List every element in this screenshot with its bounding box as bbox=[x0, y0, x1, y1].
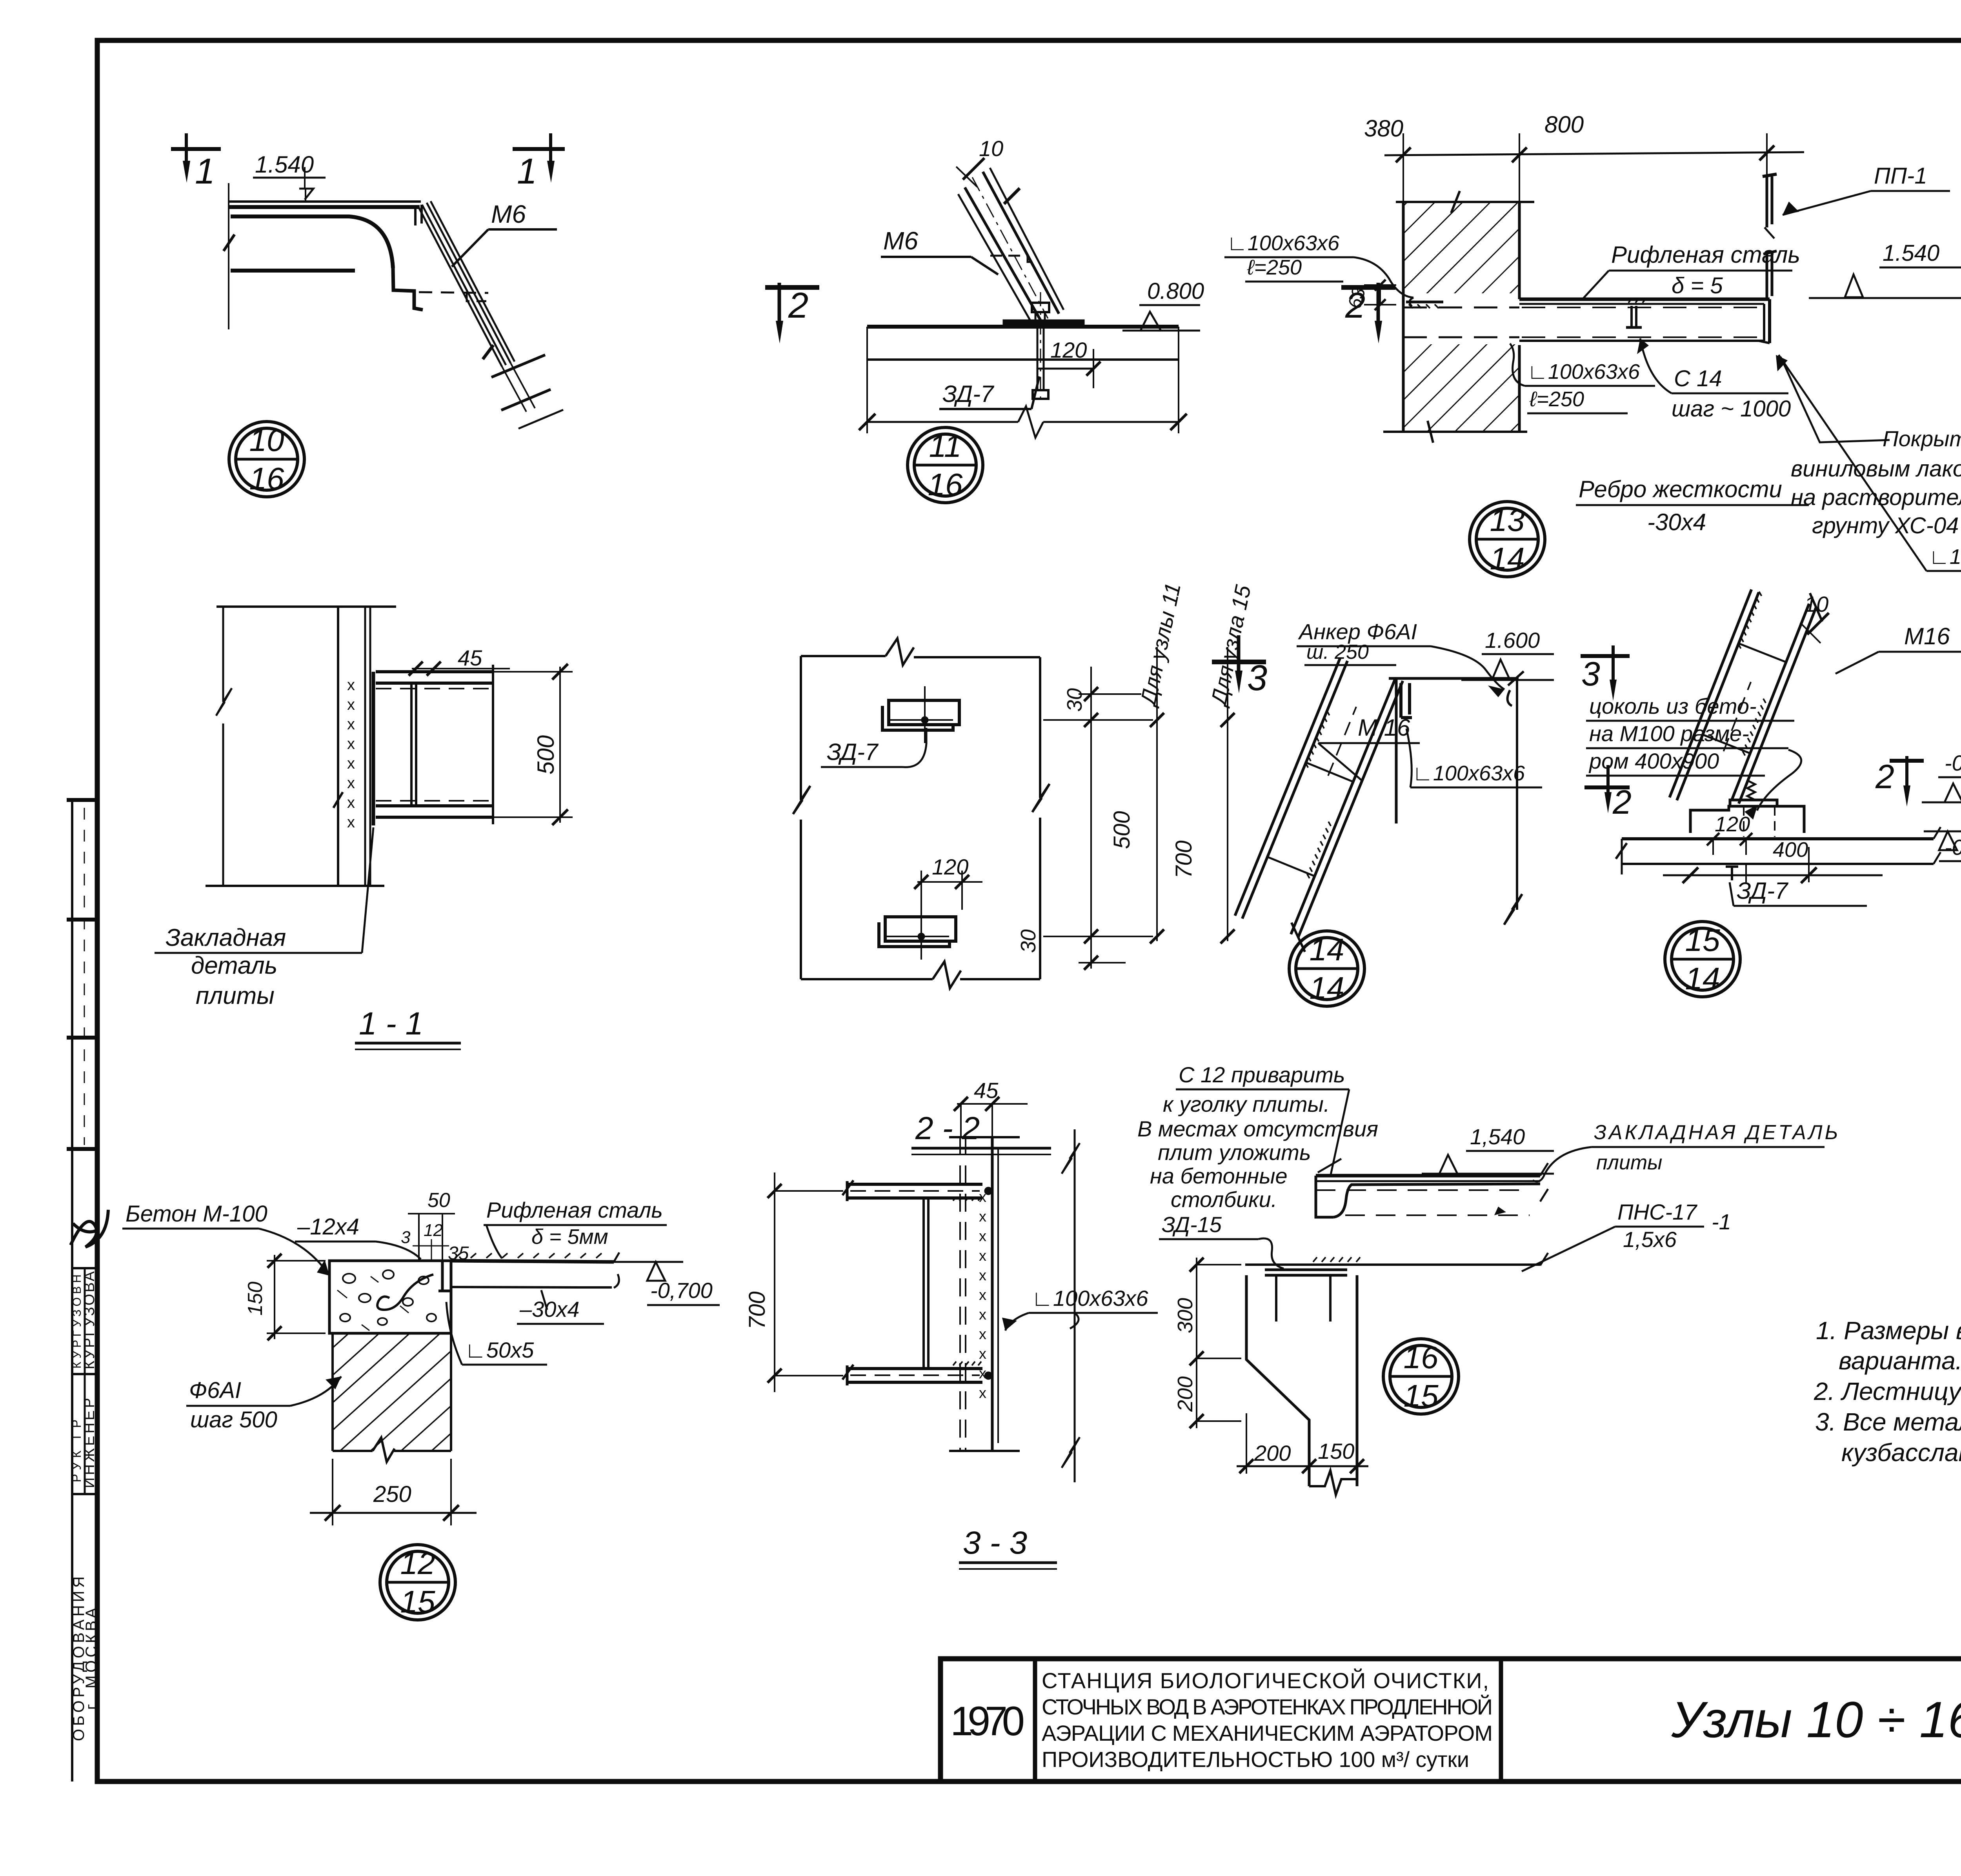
label L50x5 bbox=[446, 1302, 547, 1365]
svg-text:на М100 разме-: на М100 разме- bbox=[1589, 721, 1749, 746]
svg-text:3: 3 bbox=[1247, 658, 1267, 698]
svg-text:300: 300 bbox=[1173, 1298, 1197, 1333]
label -12x4 bbox=[295, 1214, 421, 1259]
svg-text:120: 120 bbox=[932, 854, 968, 879]
label ZD-15 bbox=[1159, 1212, 1284, 1269]
svg-text:Ребро жесткости: Ребро жесткости bbox=[1579, 476, 1782, 502]
dimension 500 (1-1) bbox=[493, 664, 573, 825]
wall verticals bbox=[333, 607, 370, 886]
svg-text:3: 3 bbox=[1581, 655, 1600, 693]
svg-text:–12х4: –12х4 bbox=[297, 1214, 359, 1240]
svg-text:δ = 5мм: δ = 5мм bbox=[531, 1225, 608, 1249]
svg-text:800: 800 bbox=[1544, 111, 1584, 138]
ladder M6 inclined bbox=[958, 168, 1064, 327]
section mark 3 (14/14) bbox=[1212, 635, 1267, 698]
upper support angle weld at wall face bbox=[1406, 302, 1443, 308]
left stamp cells bbox=[72, 1268, 97, 1494]
elevation 1.540 bbox=[1809, 240, 1961, 298]
svg-text:варианта.: варианта. bbox=[1839, 1347, 1961, 1375]
title block box bbox=[940, 1659, 1961, 1781]
section mark 2 below cokol text (15/14) bbox=[1584, 765, 1632, 821]
slab body outline bbox=[224, 216, 423, 310]
svg-text:x: x bbox=[347, 814, 355, 831]
svg-text:-0,700: -0,700 bbox=[1945, 835, 1961, 860]
label beton M-100 bbox=[122, 1201, 329, 1276]
label zakladnaya detal' plity (16/15) bbox=[1533, 1121, 1840, 1182]
svg-text:ПРОИЗВОДИТЕЛЬНОСТЬЮ 100 м³/ су: ПРОИЗВОДИТЕЛЬНОСТЬЮ 100 м³/ сутки bbox=[1042, 1747, 1469, 1772]
svg-text:50: 50 bbox=[427, 1189, 450, 1212]
svg-text:деталь: деталь bbox=[191, 952, 277, 979]
note text C12 privarit' bbox=[1137, 1062, 1378, 1212]
detail circle 12/15 bbox=[380, 1545, 455, 1620]
svg-text:150: 150 bbox=[1318, 1439, 1354, 1463]
foundation hatched block bbox=[333, 1333, 451, 1462]
elevation 1.600 bbox=[1461, 628, 1554, 680]
svg-text:30: 30 bbox=[1017, 929, 1040, 953]
label F6AI shag 500 bbox=[186, 1376, 341, 1432]
svg-text:2: 2 bbox=[788, 285, 808, 325]
dimension 120 (15/14) bbox=[1707, 813, 1752, 855]
svg-text:15: 15 bbox=[1685, 923, 1720, 958]
svg-text:плиты: плиты bbox=[196, 982, 275, 1009]
title block project name bbox=[1042, 1668, 1493, 1772]
bracket bottom beam bbox=[376, 801, 493, 817]
label M16 (14/14) bbox=[1318, 714, 1420, 780]
svg-text:x: x bbox=[979, 1385, 986, 1402]
svg-text:Рифленая сталь: Рифленая сталь bbox=[486, 1198, 663, 1222]
slab bottom line bbox=[867, 358, 1179, 361]
dimension 120 (2-2) bbox=[914, 854, 982, 910]
dimension 400 (15/14) bbox=[1746, 838, 1809, 882]
dimension 150 (12/15) bbox=[244, 1254, 326, 1340]
label M16 (15/14) bbox=[1835, 623, 1961, 674]
svg-text:-0,700: -0,700 bbox=[650, 1278, 713, 1303]
svg-text:700: 700 bbox=[1171, 840, 1197, 878]
svg-text:∟100х63х6: ∟100х63х6 bbox=[1412, 762, 1525, 785]
svg-text:М 16: М 16 bbox=[1358, 714, 1410, 741]
svg-text:шаг 500: шаг 500 bbox=[190, 1407, 277, 1432]
svg-text:ЗД-7: ЗД-7 bbox=[942, 381, 995, 407]
slab (15/14) bbox=[1616, 827, 1941, 874]
svg-text:16: 16 bbox=[1404, 1340, 1439, 1375]
dimension 10 (15/14) bbox=[1800, 592, 1829, 643]
svg-text:ЗД-15: ЗД-15 bbox=[1162, 1212, 1222, 1237]
svg-text:2 - 2: 2 - 2 bbox=[915, 1111, 980, 1146]
svg-text:∟100х63х6: ∟100х63х6 bbox=[1929, 545, 1961, 569]
dimension 10 at ladder top bbox=[956, 136, 1003, 187]
deck plate going right (12/15) bbox=[451, 1252, 619, 1288]
label C14 shag 1000 bbox=[1637, 338, 1791, 422]
svg-text:ИНЖЕНЕР: ИНЖЕНЕР bbox=[81, 1398, 98, 1488]
concrete plinth (15/14) bbox=[1690, 780, 1804, 837]
wall bottom cap line bbox=[206, 885, 384, 887]
left extension line with break bbox=[216, 607, 232, 886]
svg-text:виниловым лаком ХСЛ-4000: виниловым лаком ХСЛ-4000 bbox=[1791, 456, 1961, 482]
svg-text:12: 12 bbox=[400, 1546, 435, 1581]
svg-text:10: 10 bbox=[979, 136, 1003, 161]
svg-text:x: x bbox=[979, 1287, 986, 1303]
detail circle 15/14 bbox=[1665, 922, 1740, 997]
slab deck top lines bbox=[229, 202, 421, 207]
svg-text:КУРГУЗОВА: КУРГУЗОВА bbox=[81, 1271, 98, 1369]
svg-text:3 - 3: 3 - 3 bbox=[963, 1525, 1027, 1561]
svg-text:Закладная: Закладная bbox=[166, 924, 286, 951]
svg-text:СТАНЦИЯ БИОЛОГИЧЕСКОЙ ОЧИСТКИ,: СТАНЦИЯ БИОЛОГИЧЕСКОЙ ОЧИСТКИ, bbox=[1042, 1668, 1489, 1693]
dims 200/150 bottom (16/15) bbox=[1237, 1413, 1368, 1474]
svg-text:2. Лестницу МБ обрезать по мес: 2. Лестницу МБ обрезать по месту. bbox=[1814, 1377, 1961, 1405]
elevation -0,700 (12/15) bbox=[614, 1262, 720, 1305]
svg-text:120: 120 bbox=[1050, 338, 1087, 362]
svg-text:45: 45 bbox=[458, 645, 482, 670]
wall corner (14/14) bbox=[1389, 671, 1524, 925]
svg-text:–30х4: –30х4 bbox=[519, 1297, 580, 1322]
svg-text:x: x bbox=[979, 1267, 986, 1284]
svg-text:700: 700 bbox=[744, 1291, 770, 1329]
svg-text:1,540: 1,540 bbox=[1470, 1124, 1525, 1149]
dimension 380 / 800 bbox=[1364, 111, 1804, 202]
svg-text:200: 200 bbox=[1173, 1376, 1197, 1412]
dimension 63 left of wall bbox=[1344, 280, 1396, 311]
angle L50x5 at concrete corner bbox=[438, 1261, 451, 1291]
svg-text:15: 15 bbox=[1404, 1378, 1439, 1413]
svg-text:ℓ=250: ℓ=250 bbox=[1529, 387, 1584, 411]
svg-text:∟100х63х6: ∟100х63х6 bbox=[1031, 1286, 1149, 1311]
label zakladnaya detal' plity bbox=[155, 827, 373, 1009]
weld x marks (3-3) bbox=[979, 1189, 986, 1402]
svg-text:ПНС-17: ПНС-17 bbox=[1617, 1200, 1697, 1224]
label Rebro zhestkosti -30x4 bbox=[1576, 476, 1809, 535]
svg-text:∟100х63х6: ∟100х63х6 bbox=[1527, 360, 1640, 384]
svg-text:ЗД-7: ЗД-7 bbox=[827, 739, 879, 765]
label cokol iz betona bbox=[1586, 694, 1801, 820]
svg-text:столбики.: столбики. bbox=[1171, 1187, 1277, 1212]
svg-text:x: x bbox=[979, 1228, 986, 1245]
wall hatched bbox=[1383, 191, 1534, 443]
svg-text:δ = 5: δ = 5 bbox=[1672, 273, 1723, 298]
svg-text:к уголку плиты.: к уголку плиты. bbox=[1163, 1092, 1330, 1116]
svg-text:1970: 1970 bbox=[950, 1698, 1025, 1744]
svg-text:ш. 250: ш. 250 bbox=[1306, 641, 1369, 664]
note pokryt' perkhlorvinilovym bbox=[1776, 355, 1961, 538]
column (16/15) bbox=[1246, 1270, 1357, 1495]
svg-text:16: 16 bbox=[249, 461, 284, 496]
section mark 2 (15/14) bbox=[1875, 756, 1924, 807]
svg-text:14: 14 bbox=[1310, 971, 1344, 1005]
anchor bolt bbox=[1032, 292, 1049, 404]
svg-text:Анкер Ф6АI: Анкер Ф6АI bbox=[1298, 619, 1417, 644]
label L100x63x6 (3-3) bbox=[1002, 1286, 1158, 1331]
svg-text:кузбасслаком за 2раза кроме о: кузбасслаком за 2раза кроме оговоренных. bbox=[1841, 1438, 1961, 1467]
label M6 with leader bbox=[452, 200, 557, 267]
label L100x63x6 l=250 lower bbox=[1510, 344, 1655, 413]
dims 300/200 left (16/15) bbox=[1173, 1258, 1241, 1428]
svg-text:14: 14 bbox=[1310, 932, 1344, 967]
small dims 50 12 3 35 bbox=[401, 1189, 469, 1264]
label riflenaya stal' d=5mm (12/15) bbox=[484, 1198, 667, 1258]
channel plate ZD-7 upper bbox=[882, 686, 959, 743]
section mark 3 (15/14) bbox=[1581, 645, 1630, 701]
svg-text:45: 45 bbox=[974, 1078, 999, 1103]
svg-text:0.800: 0.800 bbox=[1147, 278, 1204, 304]
svg-text:x: x bbox=[979, 1209, 986, 1225]
left binding margin line bbox=[67, 800, 97, 1781]
svg-text:380: 380 bbox=[1364, 115, 1403, 142]
svg-text:М6: М6 bbox=[491, 200, 526, 228]
svg-text:на бетонные: на бетонные bbox=[1150, 1163, 1288, 1188]
svg-text:x: x bbox=[979, 1248, 986, 1264]
svg-text:∟50х5: ∟50х5 bbox=[465, 1338, 534, 1362]
svg-text:1. Размеры в круглых скобках д: 1. Размеры в круглых скобках даны для за… bbox=[1816, 1316, 1961, 1345]
railing post PP-1 bbox=[1763, 174, 1777, 299]
detail circle 11/16 bbox=[908, 427, 983, 503]
corner angle L100x63x6 (14/14) bbox=[1401, 683, 1512, 718]
svg-text:250: 250 bbox=[373, 1482, 411, 1507]
detail circle 16/15 bbox=[1383, 1339, 1459, 1414]
svg-text:АЭРАЦИИ С МЕХАНИЧЕСКИМ АЭРАТОР: АЭРАЦИИ С МЕХАНИЧЕСКИМ АЭРАТОРОМ bbox=[1042, 1721, 1493, 1745]
svg-text:плит уложить: плит уложить bbox=[1158, 1140, 1311, 1165]
svg-text:М16: М16 bbox=[1904, 623, 1950, 649]
channel plate ZD-7 lower bbox=[879, 903, 956, 960]
left stamp signature bbox=[71, 1210, 108, 1247]
svg-text:120: 120 bbox=[1715, 813, 1750, 836]
detail circle 13/14 bbox=[1470, 502, 1545, 577]
label ZD-7 (15/14) bbox=[1726, 867, 1867, 906]
svg-text:13: 13 bbox=[1490, 503, 1525, 538]
wall verticals (3-3) bbox=[960, 1137, 998, 1451]
svg-text:30: 30 bbox=[1063, 688, 1086, 712]
svg-text:1 - 1: 1 - 1 bbox=[359, 1006, 423, 1042]
svg-text:цоколь из бето-: цоколь из бето- bbox=[1589, 694, 1757, 718]
slab (16/15) bbox=[1245, 1163, 1548, 1265]
bottom cap line (3-3) bbox=[949, 1450, 1020, 1452]
svg-text:x: x bbox=[347, 716, 355, 733]
svg-text:СТОЧНЫХ ВОД В АЭРОТЕНКАХ ПРОДЛ: СТОЧНЫХ ВОД В АЭРОТЕНКАХ ПРОДЛЕННОЙ bbox=[1042, 1694, 1493, 1719]
svg-text:x: x bbox=[979, 1326, 986, 1343]
label -30x4 (12/15) bbox=[517, 1290, 604, 1324]
label L100x63x6 (14/14) bbox=[1406, 729, 1542, 787]
label L100x63x6 right bbox=[1779, 355, 1961, 571]
right dimension chain 30/500/30 and 700 bbox=[1017, 647, 1235, 970]
svg-text:Покрыть перхлор-: Покрыть перхлор- bbox=[1883, 426, 1961, 451]
bottom dim line (15/14) bbox=[1663, 867, 1883, 883]
top cap line (3-3) bbox=[949, 1136, 1020, 1138]
section mark 2 right bbox=[1341, 283, 1395, 344]
title 2-2 bbox=[911, 1111, 1051, 1154]
stiffener rib C14 under deck bbox=[1626, 299, 1646, 327]
svg-text:1: 1 bbox=[517, 151, 537, 191]
lower beam (3-3) bbox=[842, 1362, 982, 1385]
svg-text:x: x bbox=[347, 696, 355, 713]
svg-text:x: x bbox=[347, 774, 355, 792]
dimension 120 bbox=[1037, 338, 1101, 388]
svg-text:x: x bbox=[347, 755, 355, 772]
elevation -0,600 bbox=[1922, 751, 1961, 802]
svg-text:16: 16 bbox=[928, 467, 963, 502]
svg-text:Бетон М-100: Бетон М-100 bbox=[126, 1201, 267, 1227]
svg-text:-30х4: -30х4 bbox=[1647, 509, 1706, 535]
svg-text:-0,600: -0,600 bbox=[1945, 751, 1961, 775]
svg-text:ЗАКЛАДНАЯ ДЕТАЛЬ: ЗАКЛАДНАЯ ДЕТАЛЬ bbox=[1594, 1121, 1840, 1144]
svg-text:x: x bbox=[347, 676, 355, 694]
svg-text:1.540: 1.540 bbox=[1883, 240, 1939, 266]
label ZD-7 with leader bbox=[939, 376, 1039, 409]
svg-text:14: 14 bbox=[1490, 541, 1525, 576]
svg-text:10: 10 bbox=[249, 423, 284, 458]
middle stem (3-3) bbox=[924, 1198, 928, 1369]
svg-text:М6: М6 bbox=[883, 227, 918, 255]
dimension 45 (1-1) bbox=[409, 645, 510, 676]
detail circle 14/14 bbox=[1289, 931, 1364, 1006]
svg-text:1: 1 bbox=[195, 151, 215, 191]
bottom dimension line with break bbox=[859, 327, 1187, 438]
svg-text:x: x bbox=[979, 1307, 986, 1323]
ladder M16 (15/14) bbox=[1670, 573, 1830, 826]
svg-text:14: 14 bbox=[1685, 961, 1720, 996]
svg-text:Узлы 10 ÷ 16: Узлы 10 ÷ 16 bbox=[1671, 1691, 1961, 1748]
svg-text:1.600: 1.600 bbox=[1485, 628, 1540, 653]
svg-text:на растворителе р-4 по: на растворителе р-4 по bbox=[1791, 485, 1961, 510]
svg-text:12: 12 bbox=[424, 1221, 443, 1240]
weld dots (3-3) bbox=[984, 1187, 992, 1195]
label anker F6AI sh.250 bbox=[1297, 619, 1504, 697]
slab dashed hidden lines bbox=[419, 292, 488, 301]
outer vertical line with breaks (3-3) bbox=[1062, 1129, 1080, 1482]
svg-text:шаг ~ 1000: шаг ~ 1000 bbox=[1672, 396, 1791, 422]
svg-text:11: 11 bbox=[929, 429, 961, 464]
svg-text:1,5х6: 1,5х6 bbox=[1623, 1227, 1677, 1252]
bracket right edge bbox=[492, 665, 494, 824]
deck plate bbox=[1519, 299, 1770, 343]
svg-text:400: 400 bbox=[1773, 838, 1808, 862]
label PNS-17 1,5x6 -1 bbox=[1522, 1200, 1731, 1271]
label L100x63x6 l=250 upper with leader bbox=[1224, 231, 1413, 306]
elevation -0,700 bbox=[1924, 831, 1961, 861]
svg-text:ПП-1: ПП-1 bbox=[1874, 163, 1927, 189]
title 3-3 bbox=[959, 1525, 1057, 1569]
bracket middle stem bbox=[411, 683, 416, 806]
section mark 1 left bbox=[171, 133, 221, 191]
svg-text:∟100х63х6: ∟100х63х6 bbox=[1227, 231, 1340, 255]
plate plan outline with breaks bbox=[793, 638, 1050, 988]
dimension 1.540 bbox=[229, 151, 326, 329]
svg-text:грунту ХС-04: грунту ХС-04 bbox=[1812, 513, 1959, 538]
svg-text:ЗД-7: ЗД-7 bbox=[1737, 878, 1789, 904]
bracket top beam bbox=[376, 672, 493, 689]
svg-text:-1: -1 bbox=[1712, 1209, 1731, 1234]
label PP-1 with leader bbox=[1783, 163, 1950, 215]
svg-text:ℓ=250: ℓ=250 bbox=[1247, 256, 1302, 279]
section mark 2 left bbox=[765, 283, 819, 344]
hook anchor inside concrete bbox=[377, 1274, 433, 1310]
svg-text:x: x bbox=[979, 1346, 986, 1362]
svg-text:С 14: С 14 bbox=[1674, 366, 1722, 391]
svg-text:500: 500 bbox=[1109, 811, 1135, 849]
deck dashed lines through wall bbox=[1403, 307, 1519, 337]
detail circle 10/16 bbox=[229, 422, 304, 497]
section mark 1 right bbox=[513, 133, 565, 191]
svg-text:200: 200 bbox=[1254, 1441, 1291, 1465]
dimension 250 (12/15) bbox=[310, 1459, 477, 1525]
elevation 0.800 bbox=[1122, 278, 1204, 331]
upper beam (3-3) bbox=[842, 1180, 982, 1201]
svg-text:500: 500 bbox=[533, 735, 559, 774]
svg-text:С 12 приварить: С 12 приварить bbox=[1179, 1062, 1345, 1087]
svg-text:2: 2 bbox=[1612, 783, 1632, 821]
svg-text:x: x bbox=[347, 735, 355, 753]
ladder M6 rails bbox=[415, 201, 563, 429]
embedded plate with weld marks bbox=[347, 672, 373, 831]
label MB with leader bbox=[881, 227, 998, 274]
svg-text:15: 15 bbox=[400, 1584, 435, 1619]
svg-text:КУРГУЗОВН: КУРГУЗОВН bbox=[71, 1274, 84, 1369]
dimension 700 (3-3) bbox=[744, 1172, 843, 1392]
svg-text:ром 400х900: ром 400х900 bbox=[1588, 749, 1719, 773]
concrete block with aggregate bbox=[329, 1261, 451, 1333]
svg-text:плиты: плиты bbox=[1596, 1151, 1662, 1174]
wall top cap line bbox=[216, 605, 396, 608]
label ZD-7 (2-2) bbox=[821, 728, 926, 767]
svg-text:3: 3 bbox=[401, 1228, 411, 1247]
base plate ZD-7 bbox=[1003, 320, 1084, 326]
svg-text:Ф6АI: Ф6АI bbox=[189, 1378, 241, 1403]
ladder M16 (14/14) bbox=[1232, 656, 1414, 952]
svg-text:x: x bbox=[347, 794, 355, 811]
rotated labels dlya uzla 11 / 15 bbox=[1135, 581, 1255, 709]
svg-text:150: 150 bbox=[244, 1282, 267, 1316]
slab top line bbox=[867, 325, 1179, 329]
label Riflenaya stal d=5 bbox=[1581, 242, 1800, 300]
elevation 1,540 (16/15) bbox=[1422, 1124, 1554, 1174]
dimension 45 (3-3) bbox=[954, 1078, 1028, 1137]
svg-text:2: 2 bbox=[1875, 758, 1894, 796]
svg-text:3. Все металлические конструкц: 3. Все металлические конструкции окрасит… bbox=[1815, 1408, 1961, 1436]
title 1-1 bbox=[355, 1006, 461, 1049]
